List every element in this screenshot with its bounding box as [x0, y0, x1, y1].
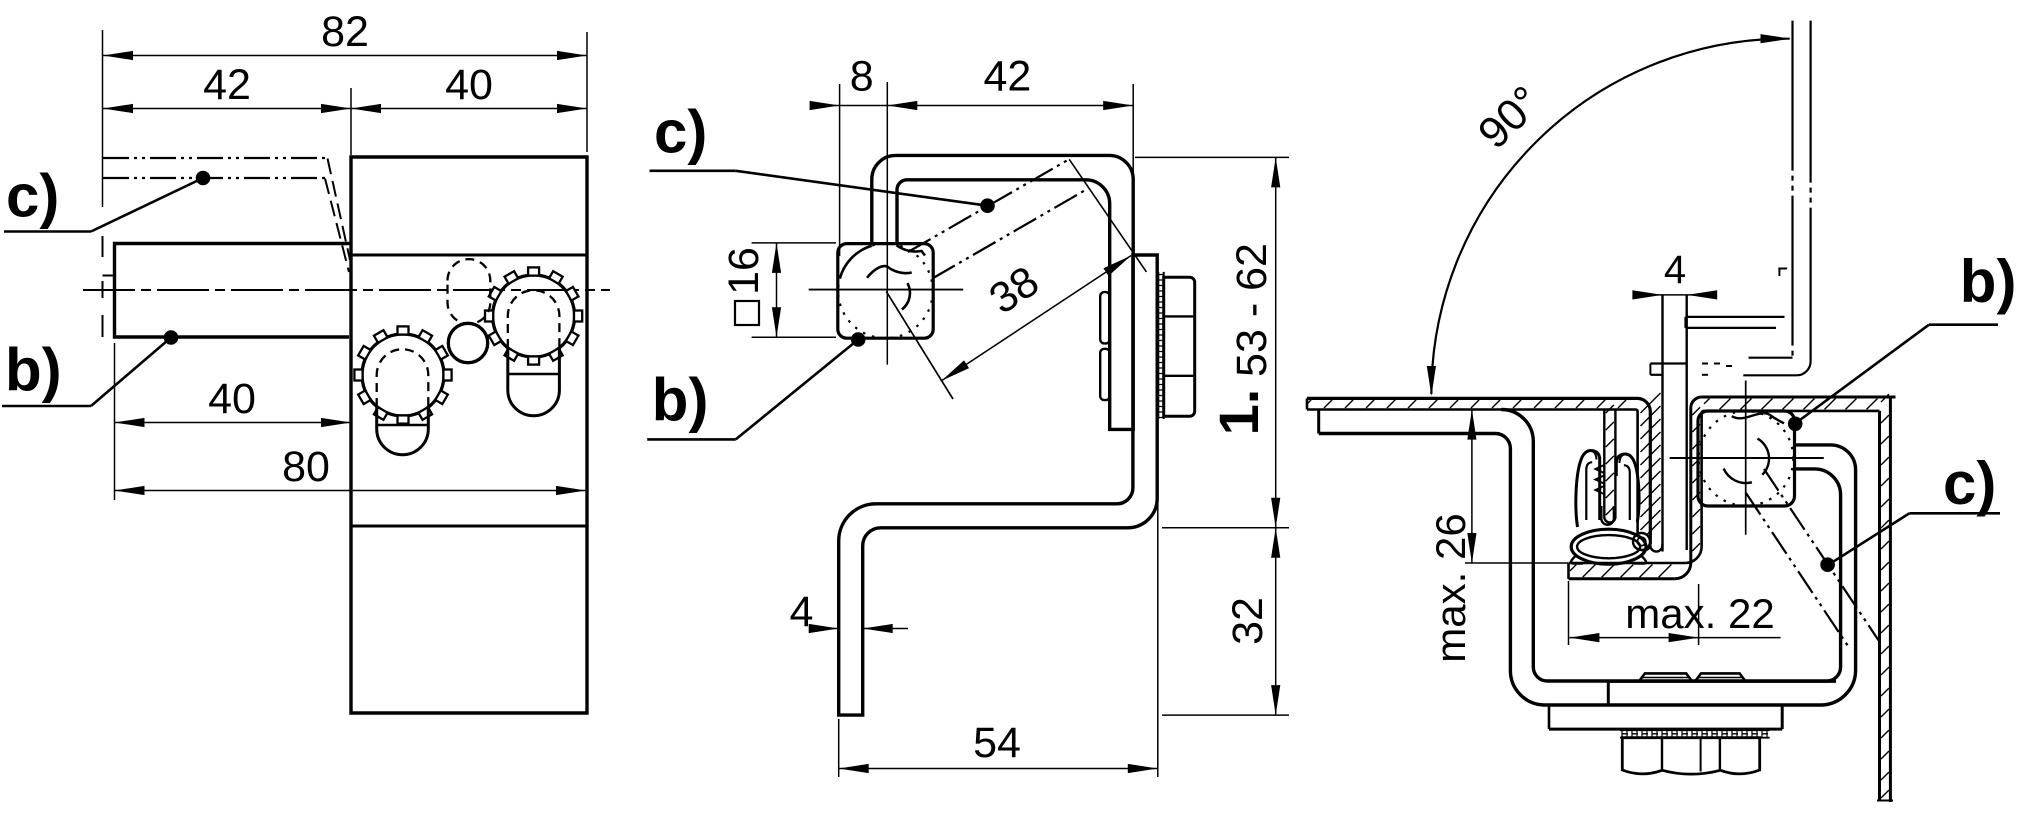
svg-text:b): b)	[652, 366, 709, 433]
svg-text:40: 40	[208, 375, 256, 423]
svg-text:42: 42	[203, 61, 251, 109]
svg-text:b): b)	[5, 337, 62, 404]
svg-text:1.: 1.	[1207, 389, 1270, 436]
svg-text:40: 40	[445, 61, 493, 109]
svg-text:max. 22: max. 22	[1625, 590, 1774, 637]
svg-text:16: 16	[720, 247, 768, 295]
svg-text:54: 54	[973, 719, 1021, 767]
svg-text:c): c)	[6, 163, 59, 230]
svg-text:b): b)	[1960, 248, 2017, 315]
svg-text:c): c)	[1943, 450, 1996, 517]
svg-text:8: 8	[850, 53, 874, 101]
svg-text:82: 82	[321, 8, 369, 56]
svg-text:53 - 62: 53 - 62	[1228, 243, 1276, 377]
svg-text:80: 80	[282, 443, 330, 491]
svg-text:c): c)	[654, 99, 707, 166]
svg-text:32: 32	[1224, 597, 1272, 645]
svg-text:max. 26: max. 26	[1427, 513, 1474, 662]
svg-text:4: 4	[790, 588, 814, 636]
svg-text:4: 4	[1664, 248, 1686, 292]
svg-text:42: 42	[983, 53, 1031, 101]
